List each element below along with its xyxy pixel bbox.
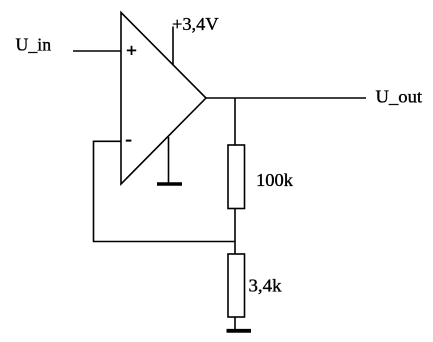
op-amp U1 — [121, 13, 206, 185]
resistor R1 100k — [228, 145, 245, 209]
ground (divider bottom) — [227, 329, 252, 333]
wire feedback horizontal — [94, 241, 236, 243]
wire feedback vertical — [93, 141, 95, 243]
wire U_in to + input — [73, 50, 121, 52]
pin label + (non-inverting input) — [127, 46, 136, 55]
ground (op-amp supply) — [157, 182, 182, 186]
svg-text:U_out: U_out — [376, 87, 423, 107]
wire op-amp bottom edge to ground — [168, 137, 170, 184]
resistor R2 3,4k — [228, 254, 245, 317]
wire R2 to ground — [234, 317, 236, 331]
wire output — [206, 97, 366, 99]
svg-text:+3,4V: +3,4V — [172, 14, 219, 34]
svg-text:3,4k: 3,4k — [249, 276, 282, 296]
svg-text:100k: 100k — [256, 170, 293, 190]
wire R1 to R2 (divider midpoint) — [234, 209, 236, 255]
node A (output to divider) — [234, 98, 236, 145]
wire +3,4V supply to op-amp top edge — [172, 27, 174, 66]
wire feedback to - input — [94, 140, 122, 142]
pin label - (inverting input) — [126, 140, 132, 142]
svg-text:U_in: U_in — [16, 34, 52, 54]
